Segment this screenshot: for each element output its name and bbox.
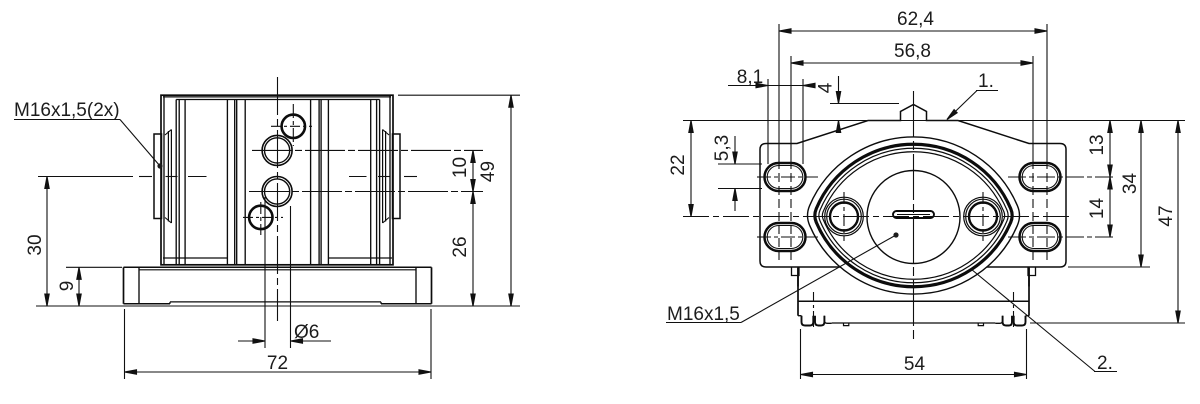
hole small bottom <box>249 206 272 229</box>
central circle <box>867 171 960 264</box>
extension verticals slots left <box>778 24 780 160</box>
crosshair small bottom <box>243 202 283 235</box>
top extension line shared by 22/4/13/34/47 <box>683 120 1185 122</box>
extension verticals slots right <box>1046 24 1048 160</box>
svg-text:22: 22 <box>668 154 689 175</box>
hole small top <box>282 115 305 138</box>
wing hole top-left <box>765 163 806 191</box>
port left <box>825 197 864 236</box>
extension 47 bottom <box>1030 322 1185 324</box>
wing hole bottom-right <box>1020 223 1061 251</box>
feet left <box>802 316 814 326</box>
main center line horizontal <box>683 216 1072 218</box>
svg-text:14: 14 <box>1087 198 1108 220</box>
wing hole axes horizontal <box>757 176 818 178</box>
boss right <box>383 130 400 224</box>
extension line hole2 axis <box>249 191 483 193</box>
body outline <box>161 95 393 265</box>
extension 34 bottom <box>1068 266 1150 268</box>
gasket inner line 2 <box>822 152 1004 280</box>
dim 49 <box>478 95 513 306</box>
svg-text:1.: 1. <box>978 71 994 92</box>
extension top for 49 <box>398 94 520 96</box>
svg-text:10: 10 <box>450 157 471 178</box>
svg-text:62,4: 62,4 <box>897 9 934 30</box>
label M16x1,5 leader <box>666 232 899 325</box>
dim 30 <box>25 177 49 307</box>
svg-text:4: 4 <box>816 82 837 93</box>
svg-text:9: 9 <box>57 281 78 292</box>
svg-text:47: 47 <box>1156 205 1177 226</box>
label 1. <box>945 71 998 121</box>
svg-text:30: 30 <box>25 234 46 255</box>
dim diameter 6 <box>238 197 331 348</box>
rail line <box>832 322 996 324</box>
svg-text:Ø6: Ø6 <box>294 322 319 343</box>
svg-text:54: 54 <box>904 354 926 375</box>
RIGHT VIEW <box>760 105 1066 326</box>
ground extension line <box>36 305 520 307</box>
svg-text:5,3: 5,3 <box>712 135 733 161</box>
center line horizontal boss axis <box>38 176 417 178</box>
svg-text:M16x1,5: M16x1,5 <box>667 304 740 325</box>
wing hole bottom-left <box>765 223 806 251</box>
svg-text:72: 72 <box>267 353 288 374</box>
svg-text:M16x1,5(2x): M16x1,5(2x) <box>14 100 120 121</box>
dim 5,3 <box>712 135 762 211</box>
port right <box>964 197 1003 236</box>
svg-text:8,1: 8,1 <box>737 67 763 88</box>
mounting plate outline <box>760 105 1066 268</box>
extension for 9 <box>66 266 122 268</box>
center line vertical <box>277 77 279 321</box>
main center line vertical <box>913 91 915 342</box>
base plate <box>124 267 432 304</box>
extension line hole1 axis / dim 10 <box>252 149 483 151</box>
label 2. <box>971 269 1117 374</box>
dim 4 <box>816 76 900 133</box>
dim 56,8 <box>791 41 1033 65</box>
gasket thick ring <box>815 144 1012 286</box>
tab below left wing <box>792 267 800 276</box>
tab below right wing <box>1028 267 1036 276</box>
dim 9 <box>57 267 81 306</box>
svg-text:26: 26 <box>450 236 471 257</box>
dim 10 <box>450 150 475 191</box>
label M16x1,5(2x) leader <box>14 100 163 169</box>
dim 14 <box>1087 177 1112 237</box>
dim 8,1 <box>728 67 815 88</box>
hole big lower <box>262 177 292 207</box>
boss left (M16 connector side) <box>154 130 171 224</box>
thin lines: center lines, extension lines, dimensions <box>14 77 520 379</box>
feet right <box>1003 316 1012 326</box>
dim 62,4 <box>779 9 1047 33</box>
slot <box>893 211 934 218</box>
crosshair small top <box>271 104 312 146</box>
right view thin lines <box>666 9 1185 379</box>
svg-text:49: 49 <box>478 161 499 182</box>
dim 22 <box>668 121 693 217</box>
dim 72 <box>125 309 432 379</box>
gasket outer boss outline <box>808 137 1020 294</box>
port center lines <box>843 192 845 241</box>
svg-text:34: 34 <box>1120 173 1141 195</box>
wing hole top-right <box>1020 163 1061 191</box>
gasket inner line 1 <box>819 148 1008 282</box>
svg-text:56,8: 56,8 <box>894 41 931 62</box>
svg-text:13: 13 <box>1087 134 1108 155</box>
dim 13 <box>1087 121 1112 178</box>
svg-text:2.: 2. <box>1097 353 1113 374</box>
dim 34 <box>1120 121 1143 268</box>
dim 47 <box>1156 121 1180 324</box>
dim 26 <box>450 192 475 307</box>
lower body block <box>798 250 1029 326</box>
hole big upper <box>262 135 292 165</box>
foot center lines <box>813 292 815 329</box>
dim 54 <box>801 329 1027 379</box>
